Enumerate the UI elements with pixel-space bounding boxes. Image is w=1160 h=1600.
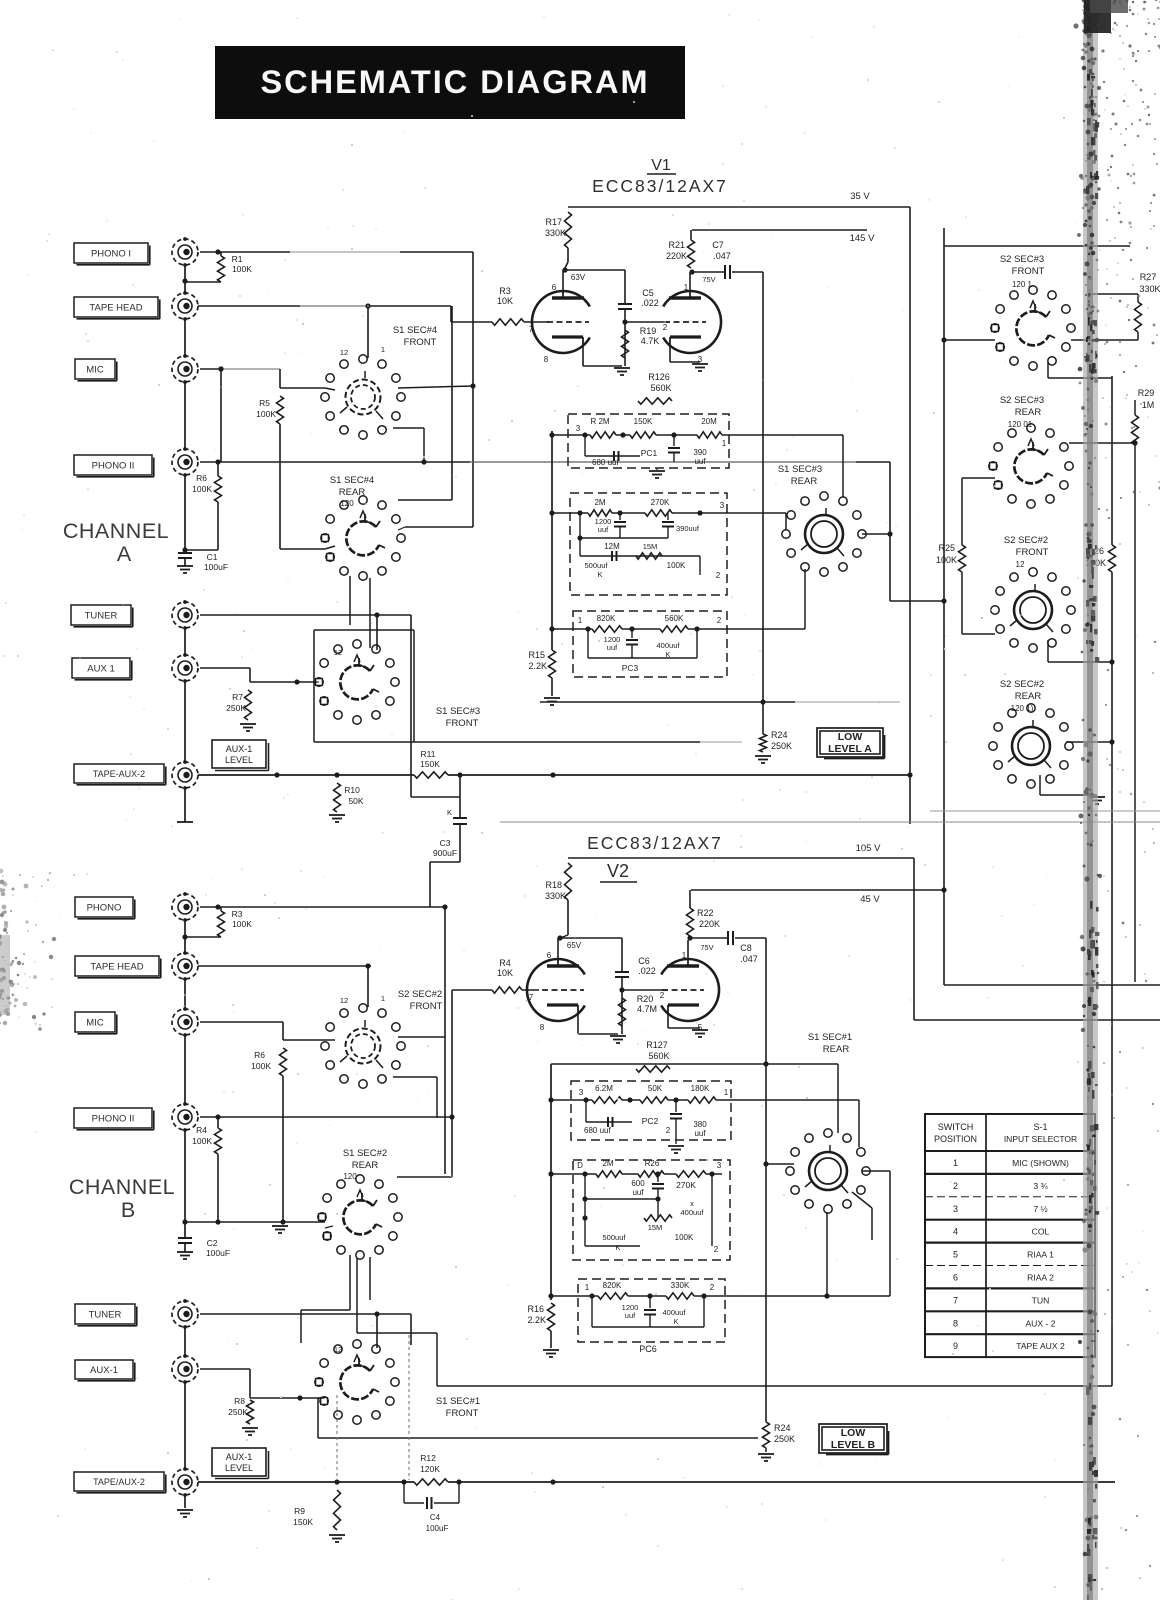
tube V1 triode b — [663, 291, 721, 353]
svg-text:10K: 10K — [497, 296, 513, 306]
jack TUNER — [71, 605, 131, 625]
svg-text:45 V: 45 V — [860, 894, 880, 905]
svg-text:C5: C5 — [642, 288, 654, 298]
svg-text:LEVEL A: LEVEL A — [828, 743, 872, 755]
svg-text:REAR: REAR — [823, 1044, 850, 1055]
resistor R24 250K (B) — [763, 1422, 770, 1448]
ground under R24 A — [755, 755, 771, 757]
resistor R1 100K — [215, 249, 220, 254]
wire TAPE-AUX-2 run — [198, 774, 414, 776]
svg-text:1: 1 — [381, 994, 385, 1003]
switch S1s4F pins wires — [325, 388, 335, 390]
svg-text:S1 SEC#2: S1 SEC#2 — [343, 1148, 387, 1159]
wire TAPE/AUX-2 B run — [198, 1481, 414, 1483]
svg-text:R1: R1 — [232, 254, 243, 264]
svg-text:FRONT: FRONT — [1012, 266, 1045, 277]
jack PHONO II — [74, 455, 152, 475]
svg-text:100K: 100K — [251, 1061, 271, 1071]
svg-text:3: 3 — [576, 424, 581, 433]
svg-text:PHONO: PHONO — [87, 902, 122, 913]
wire TUNER corner down x411 — [410, 615, 412, 797]
svg-text:.022: .022 — [641, 298, 659, 308]
svg-text:K: K — [616, 1245, 621, 1252]
PC2 1200uuf cap — [619, 513, 621, 520]
svg-text:100K: 100K — [936, 555, 957, 565]
long line y1386 — [437, 1385, 1112, 1387]
svg-text:1: 1 — [684, 283, 689, 292]
svg-text:uuf: uuf — [632, 1188, 644, 1197]
resistor R6 100K (B) — [280, 1048, 287, 1076]
svg-text:4.7K: 4.7K — [641, 336, 660, 346]
wire PC2 to S1s3R — [727, 512, 786, 514]
svg-text:MIC: MIC — [86, 364, 104, 375]
svg-text:B: B — [121, 1198, 135, 1222]
svg-text:AUX - 2: AUX - 2 — [1025, 1318, 1055, 1328]
svg-text:330K: 330K — [1139, 284, 1160, 294]
svg-text:FRONT: FRONT — [446, 718, 479, 729]
svg-text:K: K — [447, 808, 452, 817]
svg-text:R5: R5 — [259, 398, 270, 408]
ground under C1 — [184, 558, 186, 566]
jack TAPE HEAD — [74, 297, 158, 317]
svg-text:S1 SEC#1: S1 SEC#1 — [436, 1396, 480, 1407]
jack AUX-1 B — [75, 1360, 133, 1379]
svg-text:INPUT SELECTOR: INPUT SELECTOR — [1004, 1134, 1077, 1144]
svg-text:S1 SEC#3: S1 SEC#3 — [436, 706, 480, 717]
wire S1s1R feed y1064 — [551, 1063, 838, 1065]
svg-text:100K: 100K — [192, 484, 212, 494]
svg-text:220K: 220K — [699, 919, 720, 929]
S1s3F enclosing wires — [314, 629, 414, 631]
wire PHONO B long run — [218, 906, 445, 908]
tube V2 triode b — [661, 959, 719, 1021]
capacitor C4 100uF bypass — [403, 1482, 405, 1503]
input bus channel B upper — [184, 920, 186, 953]
svg-text:R11: R11 — [421, 749, 436, 759]
tube V2 triode a — [527, 959, 585, 1021]
svg-text:820K: 820K — [597, 614, 616, 623]
svg-text:R16: R16 — [527, 1304, 544, 1314]
svg-text:POSITION: POSITION — [934, 1134, 977, 1144]
coupling C6 .022 and R20 4.7M — [560, 937, 622, 939]
svg-text:S1 SEC#3: S1 SEC#3 — [778, 464, 822, 475]
svg-text:820K: 820K — [603, 1281, 622, 1290]
long line y1438 to R24B — [318, 1437, 758, 1439]
svg-text:560K: 560K — [648, 1051, 669, 1061]
wire 105V supply — [568, 857, 914, 859]
svg-text:R4: R4 — [499, 958, 511, 968]
wire TAPE HEAD run — [198, 305, 300, 307]
wire PHONO II B long run — [218, 1116, 452, 1118]
wire vertical drop x445 — [444, 907, 446, 1174]
faint line y822 — [500, 821, 1160, 823]
svg-text:CHANNEL: CHANNEL — [63, 519, 169, 543]
svg-text:R17: R17 — [545, 217, 562, 227]
svg-text:2: 2 — [663, 323, 668, 332]
resistor R4 100K on PHONO II B — [200, 1116, 218, 1118]
svg-text:MIC (SHOWN): MIC (SHOWN) — [1012, 1158, 1069, 1168]
input bus channel A lower — [184, 628, 186, 655]
svg-text:900uF: 900uF — [433, 848, 457, 858]
bus for PC boxes channel A — [551, 431, 553, 650]
svg-text:V1: V1 — [651, 157, 671, 174]
svg-text:S-1: S-1 — [1033, 1122, 1047, 1132]
svg-text:6.2M: 6.2M — [595, 1084, 613, 1093]
svg-text:S1 SEC#4: S1 SEC#4 — [330, 475, 374, 486]
svg-text:8: 8 — [540, 1023, 545, 1032]
svg-text:x: x — [690, 1201, 694, 1208]
svg-text:R3: R3 — [499, 286, 511, 296]
wire R17 top run — [568, 206, 845, 208]
svg-text:REAR: REAR — [791, 476, 818, 487]
svg-text:390: 390 — [693, 448, 707, 457]
svg-text:.047: .047 — [740, 954, 758, 964]
svg-text:12: 12 — [1016, 560, 1025, 569]
svg-text:1: 1 — [722, 439, 727, 448]
wire vertical x944 — [943, 228, 945, 985]
PC3 row — [552, 628, 592, 630]
wire PC2B to S1s1R — [731, 1099, 859, 1101]
S2s2Fr bottom wire — [1047, 640, 1049, 662]
svg-text:R10: R10 — [344, 785, 360, 795]
svg-text:2M: 2M — [594, 498, 605, 507]
svg-text:RIAA 1: RIAA 1 — [1027, 1250, 1054, 1260]
svg-text:270K: 270K — [651, 498, 670, 507]
svg-text:65V: 65V — [567, 941, 582, 950]
tube V1 triode a — [532, 291, 590, 353]
PC2 top row — [552, 512, 588, 514]
S2s2F pins wires — [325, 1039, 335, 1041]
ground under R16 — [550, 1331, 552, 1348]
resistor R21 220K — [688, 240, 695, 268]
S1s4R pin wires — [325, 546, 335, 549]
svg-text:R 2M: R 2M — [590, 417, 609, 426]
svg-text:10K: 10K — [497, 968, 513, 978]
resistor R8 250K — [200, 1368, 250, 1370]
V2a cathode ground — [577, 1013, 579, 1034]
wire y1020 to right — [914, 1019, 1160, 1021]
svg-text:9: 9 — [953, 1341, 958, 1351]
wire vertical drop x473 — [472, 252, 474, 527]
svg-text:250K: 250K — [228, 1407, 248, 1417]
svg-text:250K: 250K — [774, 1434, 795, 1444]
capacitor C1 100uF — [184, 545, 186, 553]
ground on y1222 wire — [272, 1225, 288, 1227]
svg-text:120K: 120K — [420, 1464, 440, 1474]
svg-text:6: 6 — [552, 283, 557, 292]
svg-text:15M: 15M — [648, 1223, 663, 1232]
PC1 row — [552, 434, 590, 436]
svg-text:63V: 63V — [571, 273, 586, 282]
svg-text:6: 6 — [953, 1272, 958, 1282]
wire vertical x452 tape-head branch — [451, 306, 453, 500]
input bus channel B lower — [184, 1327, 186, 1356]
svg-text:270K: 270K — [676, 1180, 696, 1190]
S1s1R pin wires — [766, 1163, 794, 1165]
svg-text:PHONO II: PHONO II — [92, 1113, 135, 1124]
PC3 1200uuf cap — [631, 629, 633, 638]
svg-text:1: 1 — [381, 345, 385, 354]
svg-text:R19: R19 — [640, 326, 657, 336]
svg-text:uuf: uuf — [607, 643, 618, 652]
wire MIC run — [200, 368, 221, 370]
ground right column — [1089, 796, 1105, 798]
wire TUNER run — [200, 614, 411, 616]
svg-text:400uuf: 400uuf — [681, 1208, 705, 1217]
svg-text:1: 1 — [578, 616, 583, 625]
ground V1a cathode — [614, 367, 630, 369]
svg-text:PC2: PC2 — [642, 1116, 659, 1126]
PC1 390uuf cap — [673, 435, 675, 446]
S2s3F left wire — [944, 339, 995, 341]
svg-text:400uuf: 400uuf — [663, 1308, 687, 1317]
long output line y702 — [540, 701, 795, 703]
svg-text:R24: R24 — [774, 1423, 791, 1433]
resistor R7 250K — [200, 667, 250, 669]
bus for PC boxes channel B — [550, 1064, 552, 1300]
PC2 390uuf cap — [667, 513, 669, 520]
wire y985 to right — [944, 984, 1160, 986]
capacitor C2 100uF — [184, 1222, 186, 1238]
svg-text:LEVEL: LEVEL — [225, 755, 253, 765]
wire plate supply x910 — [909, 207, 911, 824]
svg-text:680 uuf: 680 uuf — [592, 458, 619, 467]
input bus channel A upper — [184, 265, 186, 293]
svg-text:1: 1 — [585, 1283, 590, 1292]
box LOW LEVEL B — [819, 1424, 887, 1453]
svg-text:12: 12 — [340, 996, 348, 1005]
svg-text:R24: R24 — [771, 730, 788, 740]
svg-text:C7: C7 — [712, 240, 724, 250]
svg-text:7 ½: 7 ½ — [1033, 1204, 1047, 1214]
PCmidB 15M — [657, 1199, 659, 1218]
svg-text:S1 SEC#1: S1 SEC#1 — [808, 1032, 852, 1043]
PCmidB 500uuf — [584, 1174, 586, 1246]
svg-text:R7: R7 — [232, 692, 243, 702]
wire to S2 sec2 front top pin — [367, 966, 369, 1007]
svg-text:FRONT: FRONT — [404, 337, 437, 348]
jack MIC — [75, 359, 115, 379]
svg-text:500uuf: 500uuf — [603, 1233, 627, 1242]
svg-text:75V: 75V — [702, 275, 715, 284]
svg-text:R29: R29 — [1138, 388, 1155, 398]
svg-text:R3: R3 — [232, 909, 243, 919]
svg-text:R25: R25 — [938, 543, 955, 553]
V2b plate node — [687, 940, 689, 959]
S1s3R wires — [729, 434, 843, 436]
svg-text:AUX 1: AUX 1 — [87, 663, 114, 674]
svg-text:AUX-1: AUX-1 — [226, 1452, 253, 1462]
wire to S1 sec4 front top pin — [367, 306, 369, 358]
resistor R10 50K — [334, 783, 341, 812]
svg-text:100K: 100K — [256, 409, 276, 419]
S2s2Rr ground wire — [1039, 775, 1041, 795]
svg-text:500uuf: 500uuf — [585, 561, 609, 570]
svg-text:680 uuf: 680 uuf — [584, 1126, 611, 1135]
paper noise — [524, 895, 526, 897]
svg-text:PC3: PC3 — [622, 663, 639, 673]
svg-text:C4: C4 — [430, 1513, 441, 1522]
svg-text:8: 8 — [953, 1318, 958, 1328]
svg-text:100uF: 100uF — [206, 1248, 230, 1258]
svg-text:A: A — [117, 542, 132, 566]
svg-text:uuf: uuf — [694, 457, 706, 466]
svg-text:CHANNEL: CHANNEL — [69, 1175, 175, 1199]
svg-text:12: 12 — [340, 348, 348, 357]
wire PHONO I long run — [218, 251, 290, 253]
S2s2Rr right wire — [1066, 741, 1112, 743]
wire PHONO II long run — [218, 461, 470, 463]
svg-text:C2: C2 — [207, 1238, 218, 1248]
left edge smudges — [2, 956, 5, 959]
jack TAPE-AUX-2 — [74, 764, 164, 783]
resistor R22 220K — [687, 908, 694, 936]
faint line y811 right — [930, 810, 1160, 812]
S1s1F lower wires — [317, 1398, 319, 1438]
V1b cathode ground — [669, 345, 671, 362]
resistor R17 330K — [565, 212, 572, 248]
svg-text:S2 SEC#2: S2 SEC#2 — [1004, 535, 1048, 546]
svg-text:2: 2 — [717, 616, 722, 625]
resistor R9 150K — [334, 1490, 341, 1530]
wire 145V line — [692, 229, 867, 231]
svg-text:REAR: REAR — [1015, 691, 1042, 702]
dashed box PC3 — [573, 611, 727, 677]
svg-text:uuf: uuf — [598, 525, 609, 534]
svg-text:S1 SEC#4: S1 SEC#4 — [393, 325, 437, 336]
svg-text:S2 SEC#3: S2 SEC#3 — [1000, 254, 1044, 265]
svg-text:105 V: 105 V — [856, 843, 881, 854]
svg-text:35 V: 35 V — [850, 191, 870, 202]
PC1 680uuf loop — [584, 435, 586, 456]
wire TAPE HEAD B run — [198, 965, 371, 967]
ground under R15 — [551, 678, 553, 696]
ground under R10 — [329, 814, 345, 816]
svg-text:R126: R126 — [648, 372, 670, 382]
ground under PC2B — [675, 1140, 677, 1144]
PC2 mid node — [579, 513, 581, 556]
svg-text:250K: 250K — [771, 741, 792, 751]
svg-text:R22: R22 — [697, 908, 714, 918]
ground bus B end — [177, 1509, 193, 1511]
svg-text:S2 SEC#2: S2 SEC#2 — [1000, 679, 1044, 690]
S1s2R pin wires — [187, 1221, 325, 1223]
wire vertical x452 B — [451, 990, 453, 1177]
svg-text:150K: 150K — [420, 759, 440, 769]
wire low level B drop — [765, 938, 767, 1422]
dashed box PC mid B — [573, 1160, 730, 1260]
svg-text:100K: 100K — [192, 1136, 212, 1146]
svg-text:COL: COL — [1032, 1227, 1050, 1237]
jack PHONO B — [75, 897, 133, 917]
svg-text:R6: R6 — [254, 1050, 265, 1060]
svg-text:8: 8 — [544, 355, 549, 364]
V1a plate node — [562, 270, 564, 291]
wire MIC to PHONO II branch — [220, 369, 222, 462]
svg-text:S2 SEC#2: S2 SEC#2 — [398, 989, 442, 1000]
svg-text:100uF: 100uF — [426, 1524, 449, 1533]
svg-text:12M: 12M — [604, 542, 620, 551]
svg-text:R6: R6 — [196, 473, 207, 483]
svg-text:R20: R20 — [637, 994, 654, 1004]
table S-1 input selector — [925, 1114, 1095, 1357]
resistor R18 330K — [565, 863, 572, 900]
resistor R25 100K — [959, 545, 966, 572]
PC2 500uuf row — [580, 555, 700, 557]
resistor R3 10K — [450, 306, 452, 322]
svg-text:1: 1 — [953, 1158, 958, 1168]
svg-text:PHONO I: PHONO I — [91, 248, 131, 259]
box LOW LEVEL A — [817, 728, 883, 757]
S2s3R left wire — [962, 477, 995, 479]
svg-text:PC6: PC6 — [639, 1344, 657, 1354]
dashed box PC1 — [568, 414, 729, 468]
jack TAPE/AUX-2 B — [74, 1472, 164, 1491]
svg-text:560K: 560K — [650, 383, 671, 393]
svg-text:LOW: LOW — [841, 1427, 866, 1439]
resistor R26 100K on x1112 — [1109, 545, 1116, 572]
svg-text:R9: R9 — [294, 1506, 305, 1516]
svg-text:ECC83/12AX7: ECC83/12AX7 — [587, 833, 723, 853]
svg-text:2: 2 — [660, 991, 665, 1000]
svg-text:LEVEL: LEVEL — [225, 1463, 253, 1473]
svg-text:FRONT: FRONT — [446, 1408, 479, 1419]
wire 35V supply — [845, 206, 910, 208]
svg-text:100K: 100K — [232, 264, 252, 274]
svg-text:R4: R4 — [196, 1125, 207, 1135]
svg-text:.047: .047 — [713, 251, 731, 261]
PC2 out pin — [699, 556, 701, 575]
V1b plate node — [689, 272, 691, 291]
svg-text:ECC83/12AX7: ECC83/12AX7 — [592, 176, 728, 196]
dark corner top right — [1084, 0, 1111, 33]
jack PHONO I — [74, 243, 148, 263]
svg-text:R127: R127 — [646, 1040, 668, 1050]
PC3 400uuf cap — [696, 629, 698, 658]
wire vertical A x1112 — [1111, 376, 1113, 545]
svg-text:330K: 330K — [545, 891, 566, 901]
svg-text:R8: R8 — [234, 1396, 245, 1406]
svg-text:50K: 50K — [648, 1084, 663, 1093]
svg-text:2.2K: 2.2K — [528, 661, 547, 671]
resistor R15 2.2K — [549, 650, 556, 678]
svg-text:REAR: REAR — [352, 1160, 379, 1171]
svg-text:400uuf: 400uuf — [657, 641, 681, 650]
PC2B 680uuf loop — [585, 1100, 587, 1122]
svg-text:C6: C6 — [638, 956, 650, 966]
svg-text:1M: 1M — [1142, 400, 1155, 410]
svg-text:LEVEL B: LEVEL B — [831, 1439, 876, 1451]
svg-text:RIAA 2: RIAA 2 — [1027, 1272, 1054, 1282]
svg-text:PC1: PC1 — [641, 448, 658, 458]
PC6 1200uuf cap — [649, 1296, 651, 1308]
PCmidB row — [551, 1173, 596, 1175]
svg-text:SCHEMATIC DIAGRAM: SCHEMATIC DIAGRAM — [260, 64, 649, 100]
svg-text:uuf: uuf — [625, 1311, 636, 1320]
svg-text:2: 2 — [710, 1283, 715, 1292]
svg-text:R15: R15 — [528, 650, 545, 660]
svg-text:D: D — [577, 1161, 583, 1170]
V1a cathode to ground — [582, 345, 584, 366]
svg-text:5: 5 — [953, 1250, 958, 1260]
coupling C5 .022 and R19 4.7K — [565, 269, 625, 271]
resistor R mid 1M — [1132, 415, 1139, 445]
svg-text:380: 380 — [693, 1120, 707, 1129]
svg-text:uuf: uuf — [694, 1129, 706, 1138]
svg-text:TAPE AUX 2: TAPE AUX 2 — [1016, 1341, 1065, 1351]
svg-text:SWITCH: SWITCH — [938, 1122, 974, 1132]
ground under C2 — [184, 1243, 186, 1252]
